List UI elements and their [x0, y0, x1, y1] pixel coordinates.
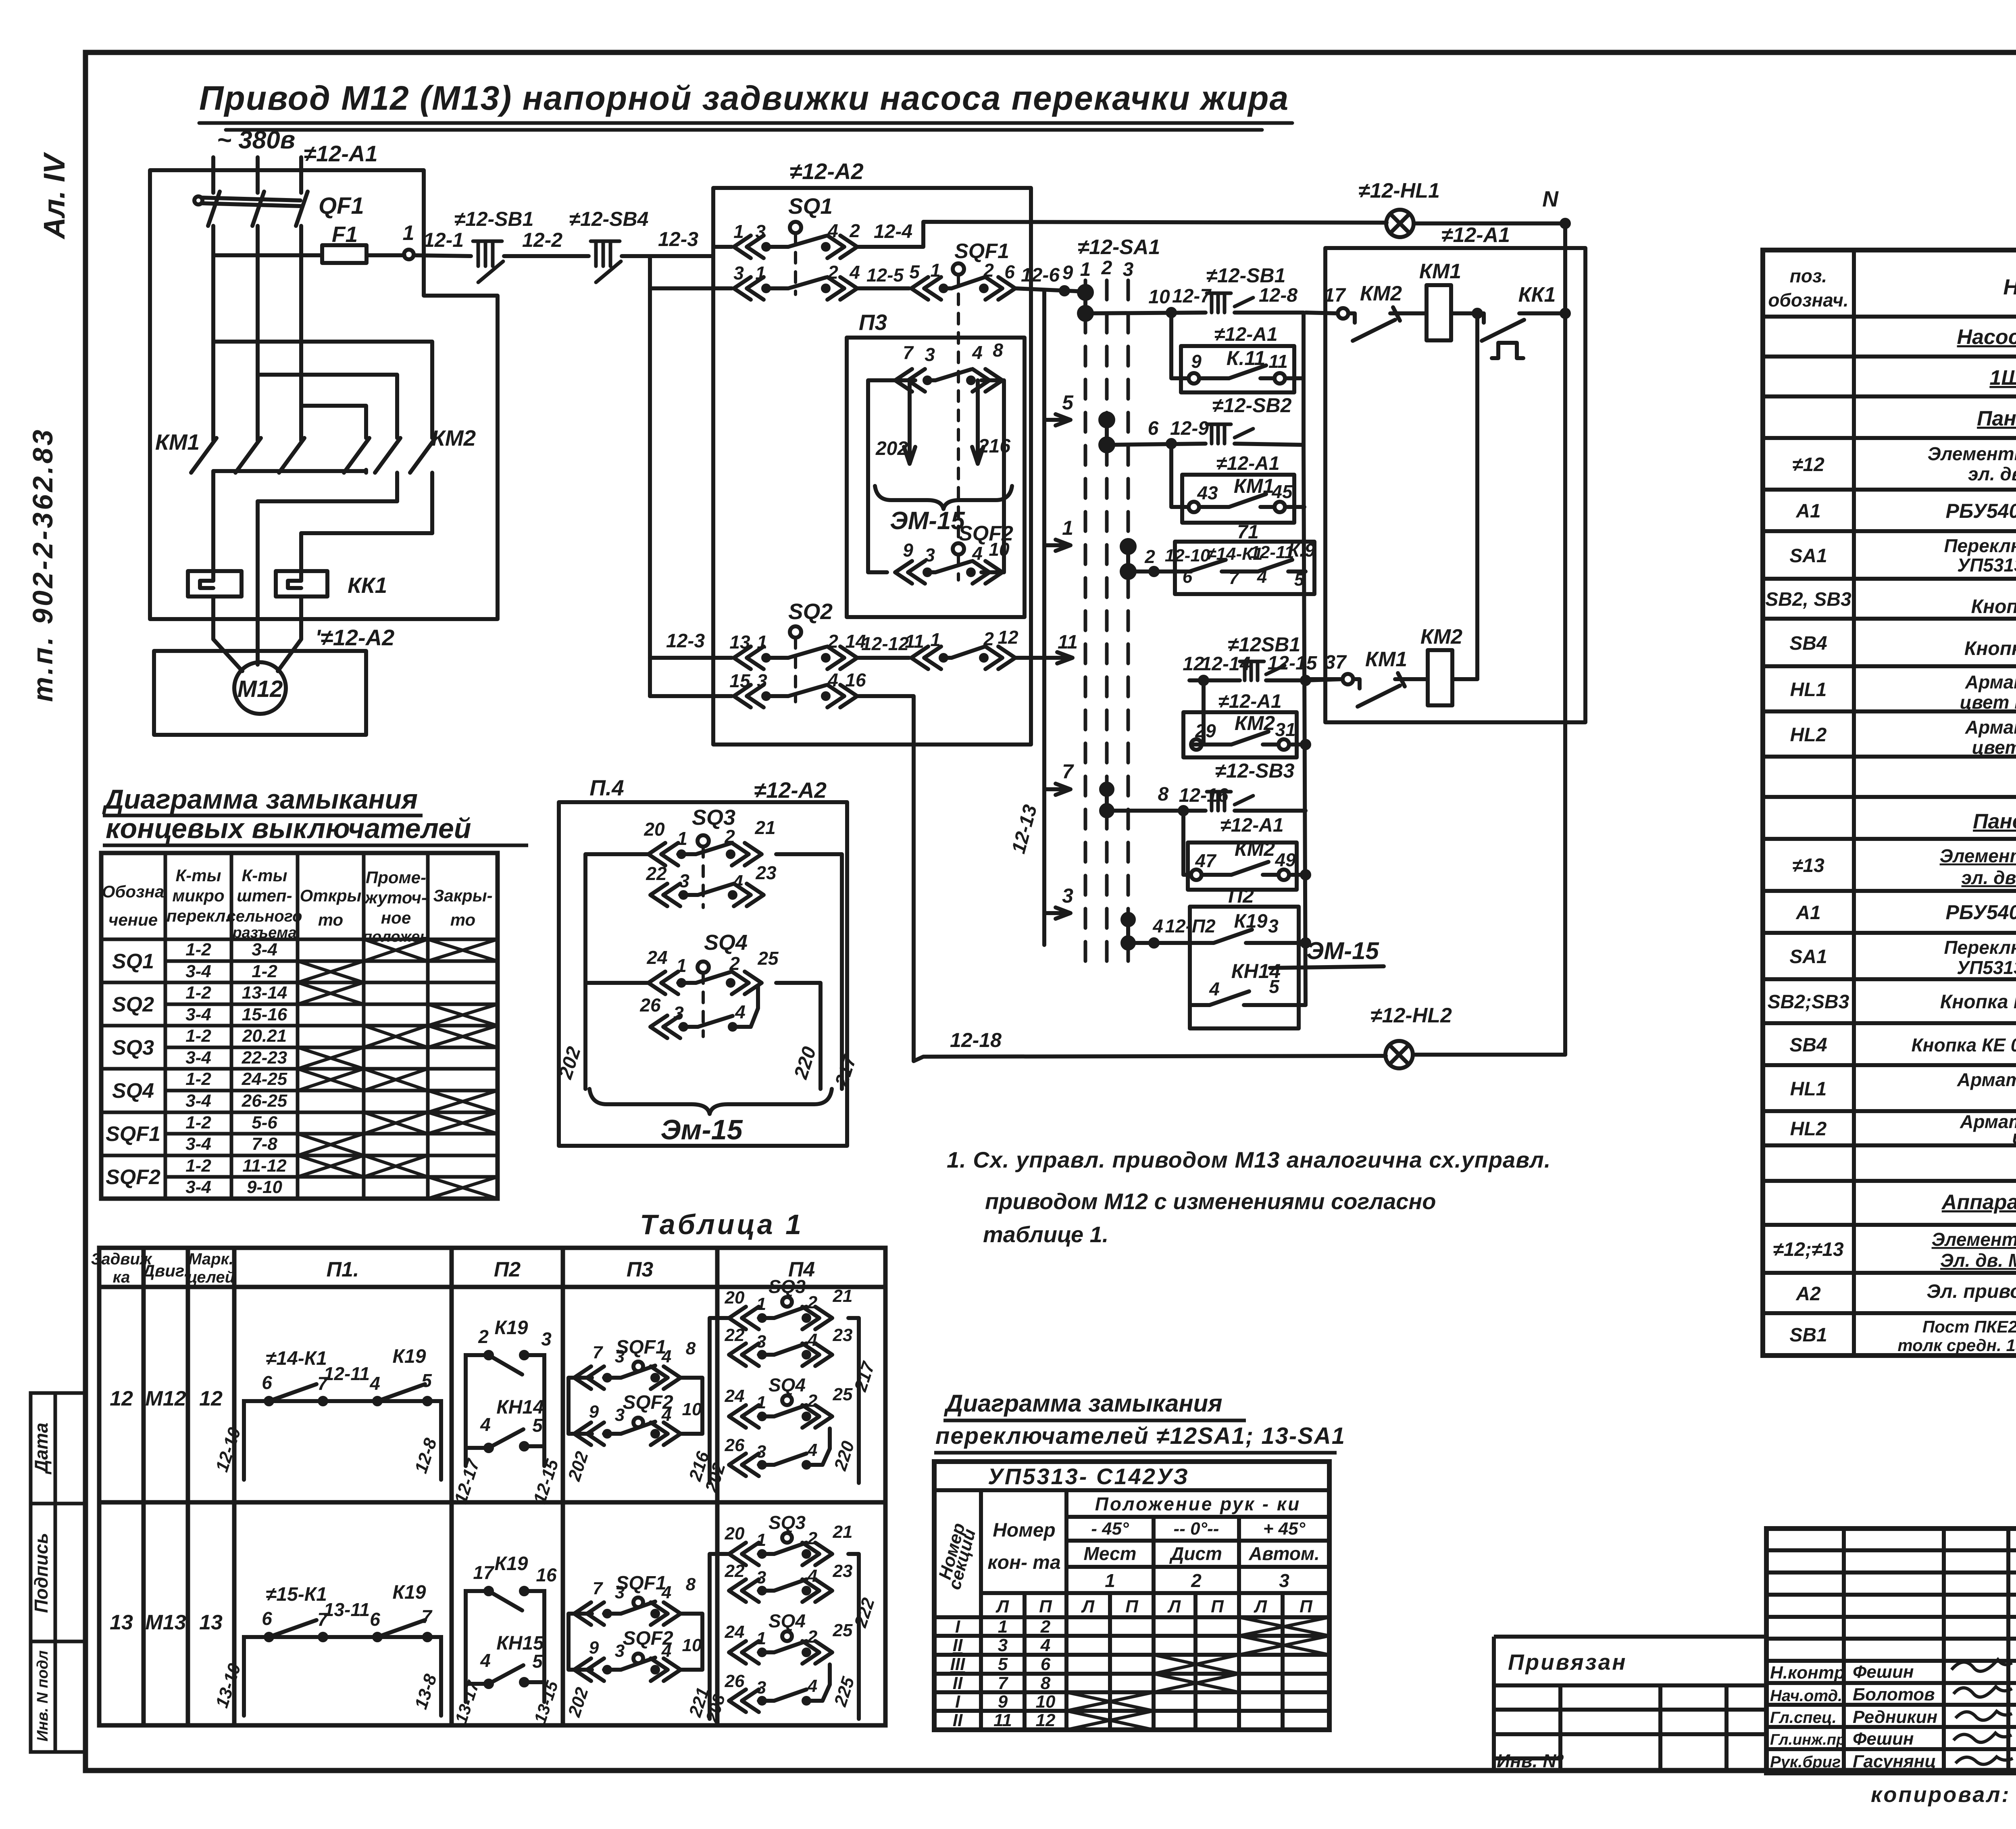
- svg-text:эл. дв. М13: эл. дв. М13: [1962, 867, 2016, 888]
- branch 3: [1044, 907, 1070, 919]
- svg-text:штеп-: штеп-: [237, 886, 292, 905]
- svg-text:Фешин: Фешин: [1853, 1729, 1914, 1749]
- svg-text:Панель 5: Панель 5: [1973, 810, 2016, 833]
- svg-text:4: 4: [1152, 916, 1163, 936]
- svg-text:РБУ5401- 03А2Ж: РБУ5401- 03А2Ж: [1945, 500, 2016, 522]
- svg-text:23: 23: [833, 1325, 853, 1345]
- svg-text:22-23: 22-23: [242, 1048, 287, 1068]
- SQ4 row2 chevron left: [650, 1016, 680, 1038]
- svg-text:КМ1: КМ1: [1419, 260, 1461, 283]
- KH14 contact row: [1190, 1003, 1210, 1007]
- svg-text:20: 20: [725, 1288, 745, 1308]
- svg-text:7: 7: [593, 1579, 604, 1598]
- svg-text:≠14-К1: ≠14-К1: [266, 1348, 327, 1369]
- svg-text:12: 12: [110, 1387, 133, 1410]
- svg-text:НL1: НL1: [1790, 1078, 1827, 1100]
- svg-text:17: 17: [1324, 285, 1346, 306]
- svg-text:Пост ПКЕ212-3УЗ толк.верх.: Пост ПКЕ212-3УЗ толк.верх. 1з 1р.: [1922, 1317, 2016, 1336]
- SA1 contact dots net3 lower: [1123, 914, 1134, 925]
- crossover wire b: [258, 375, 397, 438]
- SQ4 row2 hook: [733, 986, 758, 1027]
- svg-text:2: 2: [849, 220, 860, 241]
- SQ4 row1 wire to 220: [776, 983, 821, 1089]
- svg-text:≠12;≠13: ≠12;≠13: [1773, 1239, 1844, 1260]
- svg-text:4: 4: [661, 1641, 671, 1661]
- svg-text:7: 7: [593, 1343, 604, 1362]
- svg-text:9: 9: [903, 540, 913, 561]
- chevron right P3 top: [973, 369, 1002, 392]
- svg-text:7: 7: [421, 1606, 433, 1627]
- main stamp outline: [1766, 1529, 2016, 1773]
- svg-text:SQ1: SQ1: [112, 950, 154, 973]
- relay panel box: [1325, 248, 1585, 722]
- svg-text:П2: П2: [1228, 884, 1254, 907]
- stamp verticals left: [1842, 1529, 1846, 1773]
- svg-text:5: 5: [998, 1654, 1008, 1674]
- svg-text:5-6: 5-6: [252, 1113, 277, 1132]
- svg-text:13: 13: [729, 632, 750, 653]
- svg-text:25: 25: [833, 1620, 853, 1640]
- svg-text:РБУ5401- 03А2Ж: РБУ5401- 03А2Ж: [1945, 901, 2016, 924]
- svg-text:N: N: [1542, 186, 1559, 211]
- wire 12-4 out: [857, 222, 1387, 247]
- wire SQ1 row1: [713, 245, 732, 249]
- svg-text:2: 2: [724, 826, 735, 847]
- svg-text:12-5: 12-5: [866, 265, 904, 286]
- SQF2 head: [953, 543, 964, 555]
- phase wire L1 lower: [211, 226, 215, 436]
- svg-text:4: 4: [827, 220, 838, 241]
- SQ3 row2 chevron left: [650, 884, 680, 906]
- svg-text:копировал: ЗЛ.: копировал: ЗЛ.: [1871, 1783, 2016, 1807]
- svg-text:Автом.: Автом.: [1248, 1543, 1320, 1564]
- svg-text:≠12-SB1: ≠12-SB1: [454, 208, 534, 230]
- chevron right P3 bottom: [973, 561, 1002, 584]
- svg-text:12-1: 12-1: [423, 229, 464, 251]
- svg-text:26: 26: [725, 1671, 745, 1691]
- svg-text:НL1: НL1: [1790, 679, 1827, 701]
- svg-text:SQ2: SQ2: [788, 599, 833, 624]
- svg-text:20: 20: [725, 1524, 745, 1543]
- breaker QF1 blades: [208, 192, 220, 226]
- svg-text:Элементы управления: Элементы управления: [1932, 1229, 2016, 1250]
- junction 12-3 drop: [648, 256, 652, 696]
- svg-text:Л: Л: [1254, 1597, 1267, 1616]
- svg-text:1: 1: [756, 1629, 766, 1648]
- table1 P2 circuit row 12-17: [466, 1352, 544, 1466]
- svg-text:5: 5: [532, 1651, 543, 1672]
- svg-text:SQF1: SQF1: [954, 240, 1009, 263]
- svg-text:4: 4: [661, 1347, 671, 1366]
- svg-text:24-25: 24-25: [242, 1069, 287, 1089]
- svg-text:3: 3: [925, 544, 935, 565]
- svg-text:3: 3: [756, 1678, 766, 1698]
- wire SB1 to SB4: [504, 254, 589, 258]
- svg-text:12-7: 12-7: [1172, 286, 1212, 307]
- wire 216 drop: [972, 380, 983, 464]
- svg-text:3: 3: [756, 1568, 766, 1587]
- connector chevron left row1: [734, 236, 764, 258]
- node 1: [404, 250, 414, 259]
- svg-text:целей: целей: [187, 1268, 235, 1286]
- KM2 contact R1: [344, 438, 369, 473]
- svg-text:202: 202: [875, 438, 908, 459]
- svg-text:Арматура ЛС-53 U 220В: Арматура ЛС-53 U 220В: [1965, 717, 2016, 738]
- svg-text:КМ2: КМ2: [1235, 712, 1275, 734]
- SQ3 row2 chevron right: [734, 884, 764, 906]
- svg-text:Нач.отд.: Нач.отд.: [1770, 1687, 1842, 1705]
- svg-text:К19: К19: [393, 1582, 426, 1603]
- svg-text:≠12-А2: ≠12-А2: [789, 158, 863, 184]
- svg-text:3: 3: [1062, 884, 1073, 907]
- chevron left P3 bottom: [895, 561, 925, 584]
- svg-text:9: 9: [1062, 262, 1073, 284]
- svg-text:6: 6: [370, 1609, 380, 1630]
- svg-text:21: 21: [754, 817, 775, 838]
- svg-text:4: 4: [1040, 1635, 1050, 1655]
- svg-text:7: 7: [998, 1673, 1009, 1693]
- svg-text:≠12-А1: ≠12-А1: [1214, 324, 1277, 345]
- SQ4 row1 left tail: [585, 981, 648, 985]
- dashed net 2: [1105, 280, 1109, 968]
- junction drop KM2b: [1183, 811, 1191, 875]
- svg-text:Гл.инж.пр: Гл.инж.пр: [1770, 1731, 1845, 1748]
- svg-text:то: то: [450, 910, 475, 929]
- svg-text:КМ1: КМ1: [155, 430, 200, 455]
- svg-text:Ал. IV: Ал. IV: [37, 152, 71, 240]
- svg-text:П2: П2: [494, 1258, 521, 1281]
- svg-text:31: 31: [1275, 719, 1295, 740]
- svg-text:1: 1: [733, 221, 744, 242]
- svg-text:М12: М12: [237, 676, 283, 702]
- svg-text:1: 1: [757, 632, 767, 653]
- svg-text:3-4: 3-4: [185, 1134, 211, 1154]
- svg-text:71: 71: [1237, 521, 1258, 543]
- svg-text:3: 3: [756, 1332, 766, 1351]
- svg-text:микро: микро: [172, 886, 224, 905]
- svg-text:29: 29: [1195, 720, 1216, 741]
- svg-text:Наименование: Наименование: [2003, 275, 2016, 299]
- svg-text:8: 8: [993, 340, 1003, 361]
- phase wire L3 lower: [299, 226, 303, 436]
- svg-text:переключателей ≠12SА1; 13-SА1: переключателей ≠12SА1; 13-SА1: [935, 1423, 1345, 1449]
- svg-text:7: 7: [1229, 568, 1240, 588]
- svg-text:жуточ-: жуточ-: [364, 888, 427, 907]
- svg-text:≠12-А1: ≠12-А1: [1218, 691, 1281, 712]
- limit switch cross marks: [298, 939, 498, 1199]
- KM2 contact drop a: [364, 470, 368, 473]
- lamp HL2: [1385, 1041, 1413, 1068]
- svg-text:II: II: [953, 1673, 963, 1693]
- svg-text:перекл.: перекл.: [167, 906, 230, 925]
- dashed net 1: [1084, 280, 1087, 968]
- svg-text:4: 4: [972, 342, 983, 363]
- svg-text:3-4: 3-4: [185, 1091, 211, 1111]
- svg-text:SQ4: SQ4: [768, 1374, 806, 1395]
- wire to KM2 coil: [1403, 677, 1428, 681]
- svg-text:4: 4: [827, 669, 838, 690]
- right bus vertical: [1302, 313, 1306, 445]
- motor M12 circle: [234, 662, 286, 714]
- wire 16 to 12-18 drop: [857, 696, 1386, 1061]
- wire fuse to node 1: [367, 253, 404, 257]
- svg-text:ЭМ-15: ЭМ-15: [1306, 937, 1379, 964]
- junction drop KM2a: [1191, 680, 1204, 745]
- svg-text:13: 13: [110, 1611, 133, 1634]
- brace EM-15 P4: [589, 1089, 832, 1114]
- P3 top row loop: [868, 380, 915, 572]
- svg-text:-- 0°--: -- 0°--: [1174, 1519, 1219, 1539]
- wire row 12-10: [1128, 569, 1181, 574]
- svg-text:≠15-К1: ≠15-К1: [266, 1584, 327, 1605]
- wire 12-6 out: [1015, 288, 1085, 292]
- svg-text:Переключатель: Переключатель: [1944, 535, 2016, 556]
- svg-text:3: 3: [615, 1347, 625, 1366]
- wire SQ1 row2 from 12-3: [650, 286, 732, 290]
- svg-text:4: 4: [661, 1405, 671, 1425]
- K11 out to bus: [1285, 376, 1304, 380]
- svg-text:4: 4: [735, 1001, 746, 1022]
- svg-text:чение: чение: [108, 910, 158, 929]
- button SB2: [1207, 424, 1253, 444]
- wire SQ2 row1 from 12-3: [650, 656, 732, 660]
- svg-text:Диаграмма замыкания: Диаграмма замыкания: [102, 784, 418, 815]
- svg-text:SВ2, SВ3: SВ2, SВ3: [1765, 589, 1851, 610]
- svg-text:15: 15: [729, 670, 751, 691]
- svg-text:4: 4: [972, 543, 983, 564]
- SQ4 row2 contact: [680, 1025, 698, 1029]
- svg-text:К19: К19: [393, 1346, 426, 1367]
- svg-text:2: 2: [1144, 546, 1155, 567]
- svg-text:3-4: 3-4: [185, 1177, 211, 1197]
- SQ2 contact row1: [764, 656, 788, 660]
- svg-text:П1.: П1.: [327, 1258, 359, 1281]
- svg-text:SQ1: SQ1: [788, 194, 833, 219]
- svg-text:Мест: Мест: [1084, 1543, 1137, 1564]
- svg-text:~ 380в: ~ 380в: [217, 126, 295, 154]
- svg-text:12-11: 12-11: [324, 1363, 370, 1384]
- svg-text:5: 5: [532, 1415, 543, 1436]
- svg-text:7-8: 7-8: [252, 1134, 277, 1154]
- svg-text:А2: А2: [1795, 1283, 1821, 1305]
- svg-text:≠12-А1: ≠12-А1: [1216, 453, 1279, 474]
- wire to KM1 coil: [1398, 311, 1427, 315]
- svg-text:24: 24: [646, 947, 667, 968]
- svg-text:20.21: 20.21: [242, 1026, 287, 1046]
- svg-text:кон- та: кон- та: [987, 1552, 1060, 1573]
- SQ1 contact row1: [764, 245, 788, 249]
- P4 loop left: [585, 854, 648, 1089]
- svg-text:SQ4: SQ4: [112, 1079, 154, 1103]
- KM2a contact: [1191, 739, 1202, 750]
- SQ4 stem: [702, 973, 705, 1037]
- svg-text:7: 7: [903, 342, 914, 363]
- SQ2 contact row2: [764, 694, 788, 698]
- box 12-A1 outline: [150, 170, 498, 619]
- svg-text:≠12-А1: ≠12-А1: [304, 141, 377, 166]
- svg-text:≠12-SA1: ≠12-SA1: [1078, 236, 1160, 259]
- wire 12-12: [857, 656, 909, 660]
- svg-text:2: 2: [807, 1391, 818, 1411]
- svg-text:22: 22: [725, 1325, 745, 1345]
- svg-text:поз.: поз.: [1790, 265, 1827, 286]
- svg-text:SВ2;SВ3: SВ2;SВ3: [1768, 991, 1849, 1013]
- svg-text:2: 2: [1191, 1570, 1202, 1591]
- svg-text:2: 2: [807, 1627, 818, 1647]
- svg-text:4: 4: [807, 1676, 817, 1696]
- SQ3 row1 chevron right: [732, 843, 762, 865]
- svg-text:10: 10: [989, 539, 1010, 560]
- svg-text:SQF2: SQF2: [106, 1166, 160, 1189]
- svg-text:10: 10: [1148, 286, 1170, 308]
- svg-text:1: 1: [1080, 259, 1091, 280]
- svg-text:Эл. привод задвижки ~: Эл. привод задвижки ~380В: [1926, 1281, 2016, 1302]
- SQ2 head: [790, 626, 801, 638]
- button SB1b: [1240, 661, 1285, 680]
- svg-text:Гасунянц: Гасунянц: [1853, 1752, 1936, 1771]
- svg-text:3: 3: [679, 870, 689, 891]
- connector chevron right row1: [827, 236, 857, 258]
- svg-text:П: П: [1300, 1597, 1313, 1616]
- svg-text:1: 1: [1105, 1570, 1115, 1591]
- svg-text:1ШЩ: 1ШЩ: [1989, 366, 2016, 390]
- chevron left SQ2b: [911, 647, 941, 669]
- svg-text:25: 25: [833, 1385, 853, 1404]
- svg-text:1. Сх. управл. приводом М13 а: 1. Сх. управл. приводом М13 аналогична с…: [947, 1147, 1551, 1172]
- wire row 12-7: [1085, 313, 1206, 313]
- svg-text:5: 5: [1294, 570, 1304, 590]
- button SB1 panel: [1207, 293, 1253, 313]
- svg-text:4: 4: [732, 871, 743, 892]
- signature squiggles: [1951, 1660, 2013, 1764]
- svg-text:3-4: 3-4: [185, 961, 211, 981]
- svg-text:37: 37: [1325, 652, 1347, 673]
- svg-text:1-2: 1-2: [185, 1026, 211, 1046]
- svg-text:2: 2: [983, 628, 994, 649]
- svg-text:24: 24: [725, 1622, 745, 1642]
- fuse F1: [322, 245, 367, 263]
- svg-text:24: 24: [725, 1386, 745, 1406]
- svg-text:26: 26: [725, 1435, 745, 1455]
- svg-text:Обозна: Обозна: [102, 882, 165, 901]
- lower crossover b: [258, 499, 397, 503]
- thermal element KK1 right: [276, 571, 327, 596]
- svg-text:Кнопка КЕ 011УЗ исполн.: Кнопка КЕ 011УЗ исполн. 2: [1940, 991, 2016, 1013]
- svg-text:6: 6: [1041, 1654, 1051, 1674]
- svg-text:цвет зелен.: цвет зелен.: [1972, 737, 2016, 758]
- svg-text:'≠12-А2: '≠12-А2: [315, 625, 395, 650]
- SQ3 head: [698, 835, 709, 847]
- svg-text:SВ1: SВ1: [1789, 1324, 1827, 1346]
- svg-text:≠12-SB1: ≠12-SB1: [1206, 264, 1286, 287]
- KM1aux contact: [1189, 502, 1199, 512]
- svg-text:К19: К19: [495, 1553, 528, 1575]
- svg-text:цвет зелен.: цвет зелен.: [2012, 1126, 2016, 1147]
- relay box KM2 47-49: [1188, 843, 1297, 890]
- svg-text:4: 4: [369, 1373, 380, 1394]
- svg-text:П: П: [1039, 1597, 1052, 1616]
- svg-text:II: II: [953, 1710, 963, 1730]
- svg-text:22: 22: [646, 863, 667, 884]
- wire 37 row: [1306, 677, 1343, 681]
- svg-text:1-2: 1-2: [185, 1113, 211, 1132]
- svg-text:16: 16: [845, 669, 866, 690]
- svg-text:12-3: 12-3: [666, 630, 705, 652]
- svg-text:SQ3: SQ3: [768, 1512, 806, 1533]
- svg-text:Рук.бриг: Рук.бриг: [1770, 1753, 1841, 1771]
- table1 P2 circuit row 13-17: [466, 1588, 544, 1702]
- svg-text:Фешин: Фешин: [1853, 1662, 1914, 1682]
- table1 P3 circuit row 202: [569, 1362, 702, 1445]
- svg-text:приводом М12 с изменениями: приводом М12 с изменениями согласно: [985, 1189, 1436, 1214]
- svg-text:3: 3: [756, 1442, 766, 1462]
- svg-text:УП5313- С142УЗ: УП5313- С142УЗ: [988, 1464, 1189, 1489]
- chevron left SQ2 row1: [734, 647, 764, 669]
- svg-text:9: 9: [998, 1692, 1008, 1712]
- wire row 12-9: [1107, 444, 1206, 445]
- svg-text:Дист: Дист: [1169, 1543, 1222, 1564]
- coil KM2: [1428, 650, 1452, 705]
- svg-text:2: 2: [729, 953, 740, 974]
- svg-text:12-9: 12-9: [1170, 418, 1209, 439]
- KM2 NC contact top: [1348, 313, 1355, 323]
- svg-text:К-ты: К-ты: [175, 866, 221, 885]
- svg-text:К19: К19: [495, 1317, 528, 1339]
- svg-text:Положение рук - ки: Положение рук - ки: [1095, 1493, 1301, 1514]
- svg-text:5: 5: [909, 261, 920, 282]
- limit switch table grid: [101, 853, 498, 1199]
- box P3 outline: [847, 338, 1025, 617]
- breaker QF1 crossbar: [202, 198, 300, 200]
- svg-text:1-2: 1-2: [252, 961, 277, 981]
- svg-text:Привод М12 (М13) напорной: Привод М12 (М13) напорной задвижки насос…: [199, 79, 1289, 117]
- chevron left SQF1: [911, 277, 941, 300]
- relay box KM1aux: [1182, 475, 1294, 523]
- svg-text:Гл.спец.: Гл.спец.: [1770, 1709, 1837, 1727]
- wire SB4 to control box: [622, 254, 713, 258]
- chevron right SQ2b: [985, 647, 1015, 669]
- SA1 contact dots net2 lower: [1101, 784, 1112, 795]
- svg-text:3: 3: [925, 344, 935, 365]
- svg-text:А1: А1: [1795, 501, 1820, 522]
- svg-text:1: 1: [677, 828, 687, 849]
- svg-text:1: 1: [930, 629, 941, 650]
- svg-text:НL2: НL2: [1790, 1118, 1827, 1140]
- svg-text:≠12-А1: ≠12-А1: [1441, 223, 1510, 247]
- svg-text:5: 5: [1269, 976, 1280, 997]
- svg-text:6: 6: [1183, 567, 1193, 587]
- svg-text:6: 6: [262, 1372, 272, 1393]
- SQ4 head: [698, 961, 709, 973]
- svg-text:1-2: 1-2: [185, 983, 211, 1003]
- SQ2 stem: [794, 638, 797, 702]
- svg-text:20: 20: [644, 819, 665, 840]
- SQ1 head: [790, 222, 801, 233]
- chevron left P3 top: [895, 369, 925, 392]
- svg-text:13-11: 13-11: [324, 1599, 370, 1620]
- svg-text:Панель 2: Панель 2: [1977, 407, 2016, 430]
- branch 5: [1044, 414, 1070, 425]
- svg-text:Арматура ЛС-53 U 220В: Арматура ЛС-53 U 220В: [1965, 672, 2016, 692]
- SQ4 row1 contact: [678, 981, 696, 985]
- svg-text:1: 1: [676, 955, 687, 976]
- svg-text:П: П: [1211, 1597, 1224, 1616]
- svg-text:2: 2: [827, 631, 838, 652]
- svg-text:1: 1: [755, 263, 766, 284]
- svg-text:QF1: QF1: [319, 193, 364, 219]
- svg-text:Марк.: Марк.: [188, 1250, 233, 1268]
- svg-text:5: 5: [421, 1370, 432, 1391]
